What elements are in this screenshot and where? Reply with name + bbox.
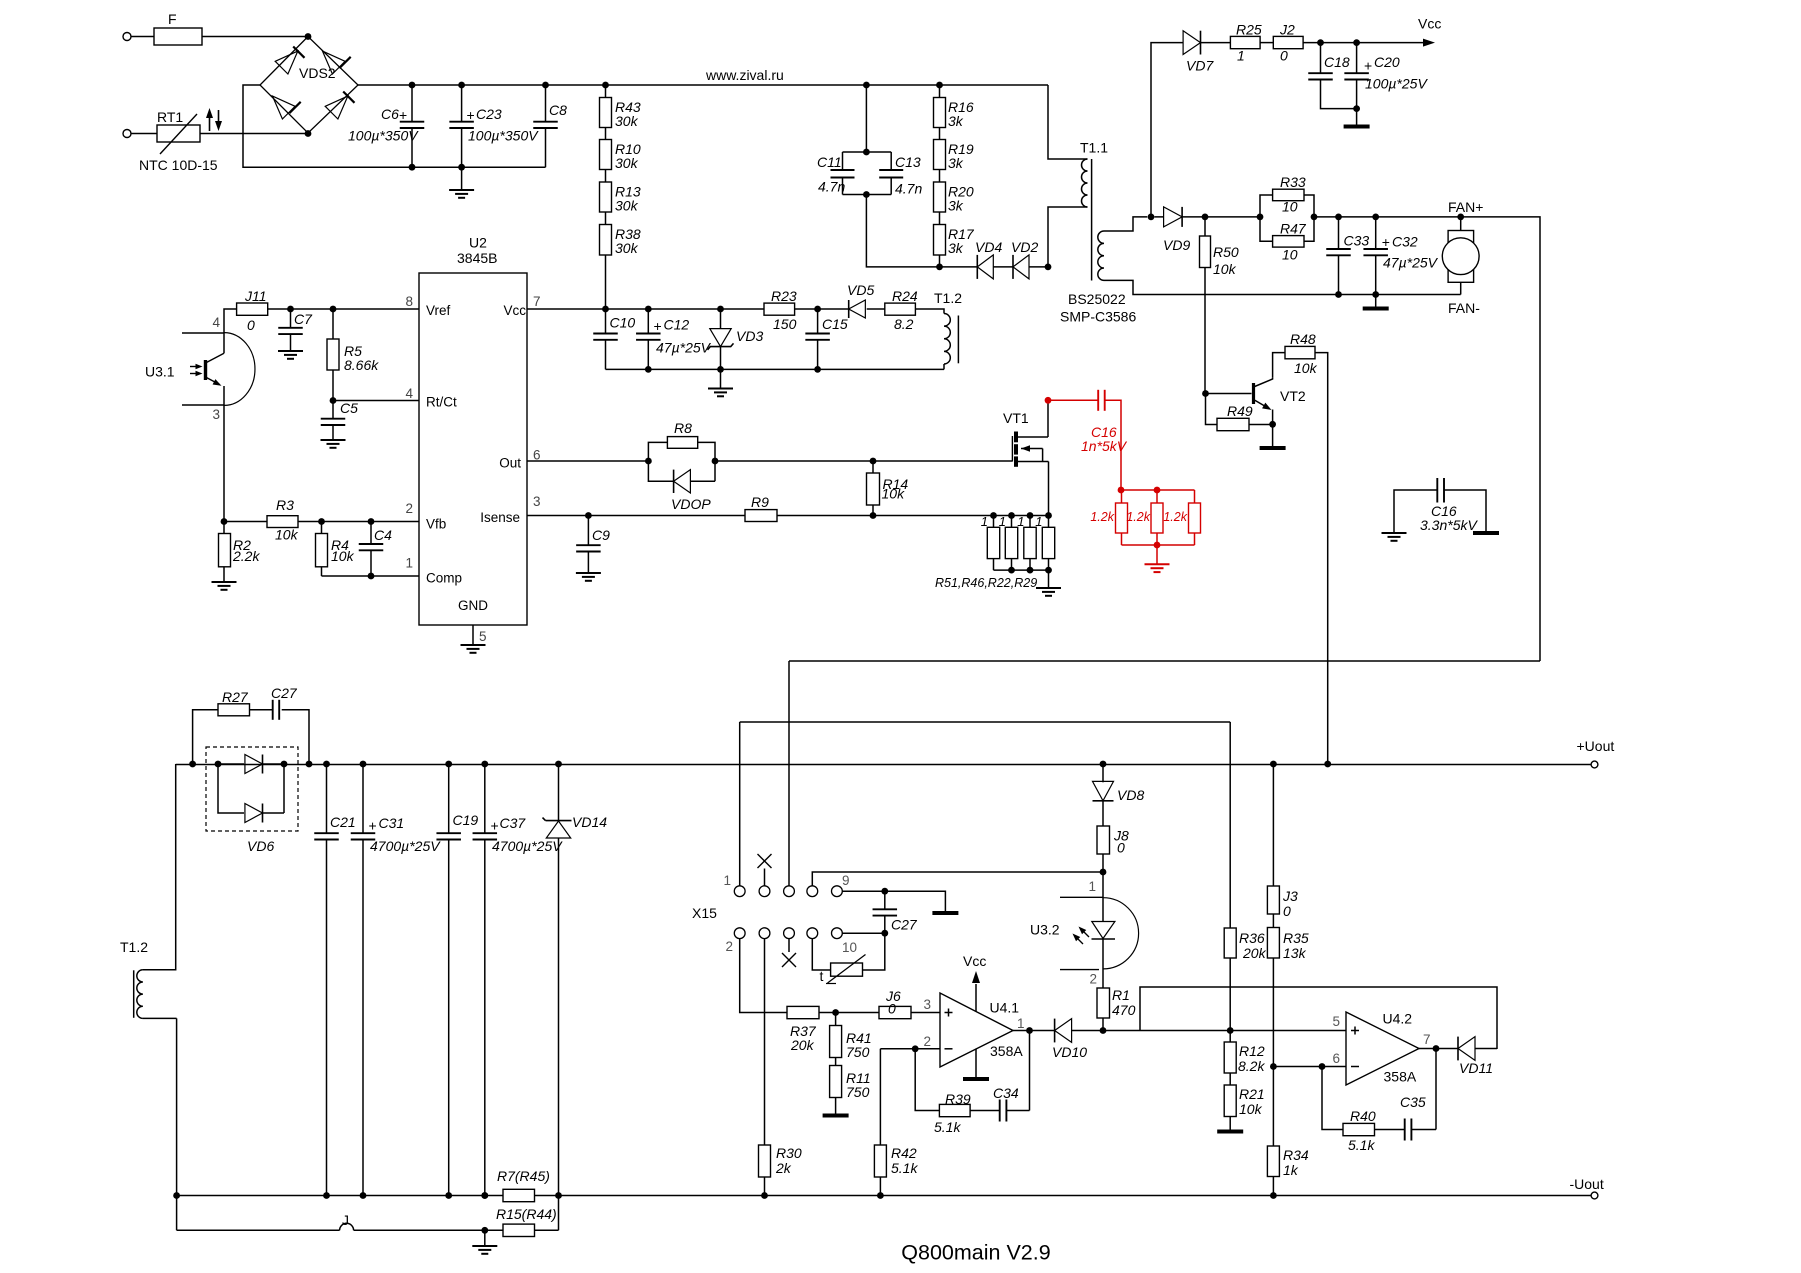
svg-text:+Uout: +Uout [1577,738,1615,754]
resistor R9 [745,494,777,522]
capacitor C16 1n*5kV red [1051,390,1128,490]
junction VD8 top [1100,761,1107,768]
svg-text:R40: R40 [1350,1108,1376,1124]
junction C31 top [360,761,367,768]
wire VD4-VD2 [993,266,1013,268]
svg-text:C27: C27 [271,685,298,701]
junction output U4.2 [1433,1045,1440,1052]
svg-text:R36: R36 [1239,930,1265,946]
wire J2-Vcc [1303,42,1428,44]
svg-text:R23: R23 [771,288,797,304]
svg-text:R48: R48 [1290,331,1316,347]
diode VD4 [975,239,1002,279]
svg-text:VD5: VD5 [847,282,874,298]
svg-text:+: + [1382,234,1390,250]
svg-text:2: 2 [405,501,413,516]
resistor bank 1.2k red [1090,490,1200,545]
wire base to R49 [1206,394,1218,425]
resistor R25 [1230,22,1261,64]
svg-text:R12: R12 [1239,1043,1265,1059]
resistor R24 [885,288,918,332]
wire pin2 net [880,1049,940,1145]
svg-text:C10: C10 [610,315,636,331]
svg-text:-Uout: -Uout [1570,1176,1604,1192]
svg-text:10k: 10k [1213,261,1237,277]
resistor R3 [267,497,299,543]
svg-text:J: J [342,1212,349,1228]
junction output U4.1 [1026,1027,1033,1034]
junction C20 top [1353,39,1360,46]
junction C8 top [542,82,549,89]
svg-text:10k: 10k [1239,1101,1263,1117]
junction R3 left [221,518,228,525]
junction C4 top [368,518,375,525]
resistor R15(R44) [496,1206,557,1237]
junction R36 bottom [1227,1027,1234,1034]
wire X15-10 stub [842,932,885,934]
junction U3.2 pin1 [1100,869,1107,876]
svg-text:VT1: VT1 [1003,410,1029,426]
junction R7 left [481,1192,488,1199]
svg-text:R50: R50 [1213,244,1239,260]
ground U2 GND [461,625,486,653]
junction R15 left [481,1227,488,1234]
wire R16 chain [939,85,941,267]
junction FAN+ motor [1457,214,1464,221]
junction R1 bottom [1100,1027,1107,1034]
svg-text:NTC 10D-15: NTC 10D-15 [139,157,218,173]
resistor R2 [219,522,261,583]
wire VD7-R25 [1201,42,1231,44]
wire R48 down to +Uout [1315,353,1328,764]
junction R33 right [1311,214,1318,221]
junction R30 bottom [761,1192,768,1199]
svg-text:1: 1 [1017,1016,1025,1031]
svg-text:Vcc: Vcc [503,303,526,318]
svg-text:9: 9 [842,873,850,888]
capacitor C11 [817,152,891,195]
wire Vfb [224,521,419,523]
op-amp U2 3845B body [419,235,527,626]
fan motor [1442,217,1479,295]
svg-text:10k: 10k [882,486,906,502]
ground bank [1036,570,1061,596]
fuse F [154,11,202,45]
wire X15-1 to R36 [740,722,1230,928]
wire X15-1b to R37 [740,939,787,1013]
resistor R43 [600,98,641,130]
wire +Uout rail [176,764,1591,766]
svg-text:100µ*350V: 100µ*350V [468,128,539,144]
ground J [472,1230,497,1254]
wire T1.1 primary [1048,85,1088,267]
svg-text:100µ*25V: 100µ*25V [1365,76,1428,92]
svg-text:Q800main V2.9: Q800main V2.9 [901,1241,1050,1265]
junction C10 top [602,306,609,313]
svg-text:3: 3 [923,997,931,1012]
ground R2 [212,582,237,590]
svg-text:U3.1: U3.1 [145,364,175,380]
capacitor C31 [351,764,376,1196]
junction R33 left [1257,214,1264,221]
svg-text:150: 150 [773,316,797,332]
junction C6 top [409,82,416,89]
svg-text:8.2k: 8.2k [1238,1058,1265,1074]
junction VT1 drain red [1045,397,1052,404]
wire R37-J6 [819,1012,879,1014]
wire C11C13 stub [865,85,867,152]
svg-text:C6: C6 [381,106,399,122]
op-amp U4.2 [1332,1011,1430,1086]
svg-text:7: 7 [1423,1032,1431,1047]
wire X15-2b to R30 [764,939,766,1145]
svg-text:C31: C31 [379,815,405,831]
svg-text:C34: C34 [993,1085,1019,1101]
current arrows [206,108,222,131]
svg-text:C15: C15 [822,316,848,332]
junction +Uout R48 [1324,761,1331,768]
junction C5 top [330,397,337,404]
wire Vref rail [268,308,419,310]
svg-text:8: 8 [405,294,413,309]
junction C18 top [1317,39,1324,46]
svg-text:C8: C8 [549,102,567,118]
svg-text:R35: R35 [1283,930,1309,946]
resistor R7(R45) [497,1168,550,1202]
svg-text:t: t [820,968,824,984]
diode VD14 zener [543,764,608,1196]
svg-text:VD8: VD8 [1117,787,1144,803]
capacitor C35 [1400,1094,1426,1141]
svg-text:R47: R47 [1280,221,1307,237]
resistor R35 [1267,914,1308,1067]
capacitor C34 [993,1085,1019,1122]
wire T1.1 sec bottom (FAN- rail) [1104,280,1461,294]
pin 5 [479,629,487,644]
thermistor t [812,933,885,984]
svg-text:4.7n: 4.7n [895,181,922,197]
junction red 2 [1154,487,1161,494]
svg-text:R33: R33 [1280,174,1306,190]
label BS25022 [1060,291,1136,325]
capacitor C19 [436,764,461,1196]
capacitor C16 3.3n*5kV [1382,478,1500,541]
svg-text:U3.2: U3.2 [1030,922,1060,938]
junction VT1 source [1045,512,1052,519]
wire X15-4 to U3.2 [812,872,1103,886]
resistor R42 [874,1145,918,1196]
wire J11 left [224,309,237,333]
svg-text:358A: 358A [1384,1069,1417,1085]
svg-text:C21: C21 [330,814,356,830]
junction VT2 base node [1202,390,1209,397]
junction C6 bottom [409,164,416,171]
svg-text:VD4: VD4 [975,239,1002,255]
junction VD3 bottom [717,366,724,373]
svg-text:30k: 30k [615,198,639,214]
svg-text:GND: GND [458,598,488,613]
svg-text:10k: 10k [275,527,299,543]
svg-text:30k: 30k [615,240,639,256]
connector X15 [692,873,857,955]
svg-text:C11: C11 [817,154,842,170]
diode VD7 [1183,31,1214,74]
svg-text:C23: C23 [476,106,502,122]
label C37 [491,815,564,854]
svg-text:VD3: VD3 [736,328,763,344]
svg-text:470: 470 [1112,1002,1136,1018]
svg-text:1: 1 [1035,514,1042,529]
wire RtCt [333,400,419,402]
wire RT1 line [131,133,308,135]
junction R17 bottom [936,264,943,271]
svg-text:7: 7 [533,294,541,309]
ground VD3 [708,369,733,396]
thermistor RT1 [139,109,218,173]
junction bridge top [305,33,312,40]
svg-text:0: 0 [247,317,255,333]
wire R chain [605,85,607,309]
svg-text:5: 5 [1332,1014,1340,1029]
svg-text:C37: C37 [500,815,527,831]
svg-text:Vfb: Vfb [426,517,446,532]
junction C33 bottom [1335,291,1342,298]
junction C4 bottom [368,573,375,580]
junction C31 bottom [360,1192,367,1199]
svg-text:4700µ*25V: 4700µ*25V [370,838,441,854]
svg-text:1: 1 [1017,514,1024,529]
svg-text:+: + [1364,58,1372,74]
jumper J3 [1267,764,1298,919]
wire aux bottom rail [606,368,945,370]
cross mark bottom pin3 [782,939,796,967]
svg-text:VD9: VD9 [1163,237,1190,253]
wire VD7 riser [1151,43,1183,217]
pin 4 [405,386,413,401]
capacitor C23 [449,85,539,167]
resistor R36 [1224,928,1266,1031]
svg-text:6: 6 [1332,1051,1340,1066]
resistor bank R51,R46,R22,R29 [935,514,1055,590]
junction bank bottom 2 [1008,567,1015,574]
wire Comp [322,575,420,577]
capacitor C12 [636,309,712,369]
svg-text:Out: Out [499,456,521,471]
ground VT2 [1260,424,1286,448]
svg-text:VD10: VD10 [1052,1044,1087,1060]
junction red 3 [1154,542,1161,549]
svg-text:750: 750 [846,1084,870,1100]
svg-text:Vref: Vref [426,303,451,318]
jumper J11 [237,288,268,333]
junction R8 left [645,458,652,465]
resistor R17 [934,225,975,257]
wire J6-pin3 [911,1012,940,1014]
label C21 [330,814,356,830]
junction C23 top [458,82,465,89]
svg-text:T1.2: T1.2 [120,939,148,955]
cross mark top pin2 [758,854,772,886]
resistor R20 [934,182,974,214]
svg-text:VD11: VD11 [1459,1060,1493,1076]
pin 8 [405,294,413,309]
resistor R33 [1260,174,1314,217]
net Vcc arrow [1418,16,1441,47]
svg-text:R8: R8 [674,420,692,436]
junction R16 top [936,82,943,89]
svg-text:C4: C4 [374,527,392,543]
pin 6 [533,448,541,463]
resistor R39 [934,1091,971,1135]
resistor R1 [1097,987,1136,1031]
svg-text:0: 0 [1280,48,1288,64]
svg-text:1: 1 [981,514,988,529]
junction R14 bottom [870,512,877,519]
junction VT2 emitter [1269,421,1276,428]
svg-text:C32: C32 [1392,234,1418,250]
junction VD9 anode [1148,214,1155,221]
junction bank top 1 [990,512,997,519]
svg-text:R9: R9 [751,494,769,510]
svg-text:+: + [491,818,499,834]
transistor VT1 [1003,400,1049,515]
capacitor C8 [533,85,567,167]
label C31 [369,815,442,854]
svg-text:R3: R3 [276,497,294,513]
svg-text:C19: C19 [453,812,479,828]
resistor R11 [830,1066,871,1115]
svg-text:+: + [467,107,475,123]
junction left rail bottom [173,1192,180,1199]
svg-text:47µ*25V: 47µ*25V [656,340,712,356]
capacitor C37 [473,764,498,1196]
junction bank top 3 [1027,512,1034,519]
svg-text:0: 0 [1117,840,1125,856]
wire top rail [358,84,1048,86]
junction R43 top [602,82,609,89]
svg-text:0: 0 [1283,903,1291,919]
capacitor C4 [359,522,392,577]
resistor R37 [787,1006,819,1053]
svg-text:1: 1 [405,556,413,571]
svg-text:1.2k: 1.2k [1090,510,1114,524]
svg-text:Vcc: Vcc [1418,16,1441,32]
wire U3.1 pin3 down [223,405,225,522]
svg-text:4: 4 [213,315,221,330]
svg-text:3k: 3k [948,113,964,129]
junction C23 bottom [458,164,465,171]
wire output U4.2 [1419,1048,1458,1050]
junction VD14 top [555,761,562,768]
svg-text:3845B: 3845B [457,250,497,266]
svg-text:358A: 358A [990,1043,1023,1059]
junction C32 bottom [1372,291,1379,298]
svg-text:R24: R24 [892,288,918,304]
svg-text:4.7n: 4.7n [818,179,845,195]
svg-text:VD6: VD6 [247,838,274,854]
svg-text:13k: 13k [1283,945,1307,961]
svg-text:20k: 20k [1242,945,1267,961]
junction C19 top [445,761,452,768]
svg-text:10: 10 [1282,199,1298,215]
svg-text:10k: 10k [331,548,355,564]
junction R50 top [1202,214,1209,221]
capacitor C10 [593,309,635,369]
svg-text:0: 0 [888,1001,896,1017]
svg-text:C35: C35 [1400,1094,1426,1110]
svg-text:4: 4 [405,386,413,401]
resistor R49 [1217,403,1253,431]
svg-text:C5: C5 [340,400,358,416]
pin 2 [405,501,413,516]
svg-text:5: 5 [479,629,487,644]
svg-text:C13: C13 [895,154,921,170]
junction C18C20 bottom [1353,105,1360,112]
ground C9 [576,573,601,581]
svg-text:30k: 30k [615,113,639,129]
junction R34 bottom [1270,1192,1277,1199]
junction R27 right [306,761,313,768]
svg-text:R51,R46,R22,R29: R51,R46,R22,R29 [935,576,1037,590]
junction C15 bottom [814,366,821,373]
diode VD2 [1011,239,1038,279]
svg-text:2.2k: 2.2k [232,548,260,564]
capacitor C33 [1326,217,1369,295]
jumper J8 [1097,826,1129,872]
svg-text:5.1k: 5.1k [1348,1137,1375,1153]
diode VD5 [847,282,874,318]
junction R4 top [318,518,325,525]
svg-text:R25: R25 [1236,22,1262,38]
svg-text:2: 2 [923,1034,931,1049]
transformer T1.1 secondary winding [1098,231,1104,280]
diode VD10 [1052,1019,1087,1060]
svg-text:R21: R21 [1239,1086,1265,1102]
svg-text:C27: C27 [891,917,918,933]
wire VD9 out [1155,216,1261,218]
terminal +Uout [1577,738,1615,768]
svg-text:4700µ*25V: 4700µ*25V [492,838,563,854]
svg-text:Rt/Ct: Rt/Ct [426,395,457,410]
resistor R41 [830,1013,872,1066]
svg-text:F: F [168,11,177,27]
svg-text:3: 3 [213,407,221,422]
ground C20 [1344,109,1370,127]
resistor R14 [867,461,909,516]
capacitor C13 [843,152,923,197]
pin 1 [405,556,413,571]
resistor R5 [327,309,379,401]
wire pin6 net [1273,1066,1346,1068]
svg-text:J3: J3 [1282,888,1298,904]
label C19 [453,812,479,828]
svg-text:C7: C7 [294,311,313,327]
junction VD14 bottom [555,1192,562,1199]
svg-text:R42: R42 [891,1145,917,1161]
svg-text:VT2: VT2 [1280,388,1306,404]
junction VD6 left [215,761,222,768]
capacitor C6 [348,85,424,167]
junction VD6 right [281,761,288,768]
wire VD11 out [1475,1048,1497,1050]
wire fb to VD11 [1140,987,1497,1049]
svg-text:1: 1 [999,514,1006,529]
power Vcc U4.1 [963,953,986,1012]
ground C32 [1363,295,1389,309]
svg-text:1: 1 [1237,48,1245,64]
diode VDOP [648,461,715,512]
junction C27b bottom [881,930,888,937]
